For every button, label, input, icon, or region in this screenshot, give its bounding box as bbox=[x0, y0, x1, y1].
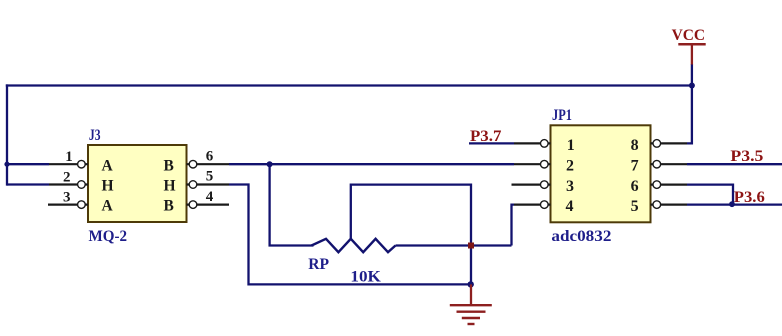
svg-text:B: B bbox=[164, 198, 174, 215]
svg-text:P3.6: P3.6 bbox=[734, 189, 765, 206]
wire VCC net left vertical bbox=[6, 84, 8, 185]
svg-text:5: 5 bbox=[631, 198, 639, 215]
svg-text:P3.5: P3.5 bbox=[730, 148, 763, 165]
pin JP1.2 circle bbox=[541, 160, 549, 168]
svg-text:1: 1 bbox=[567, 137, 575, 154]
pin J3.6 lead bbox=[187, 163, 230, 165]
svg-text:5: 5 bbox=[206, 169, 214, 185]
connector JP1 body bbox=[551, 125, 651, 222]
connector J3 body bbox=[88, 145, 187, 222]
wire JP1.7 to right edge bbox=[687, 163, 782, 165]
svg-text:2: 2 bbox=[63, 169, 71, 185]
ground bar 4 bbox=[468, 323, 475, 325]
wire J3.5 down and across bottom bbox=[229, 185, 471, 285]
pin JP1.3 lead (no connect stub) bbox=[512, 184, 551, 186]
svg-text:8: 8 bbox=[631, 137, 639, 154]
svg-text:B: B bbox=[164, 157, 174, 174]
pin J3.3 circle bbox=[78, 201, 86, 209]
pin JP1.3 circle bbox=[541, 181, 549, 189]
pin J3.4 lead bbox=[187, 204, 230, 206]
svg-text:6: 6 bbox=[206, 148, 214, 164]
svg-text:1: 1 bbox=[65, 149, 73, 165]
node junction on pin6 wire bbox=[267, 161, 273, 167]
pin JP1.5 circle bbox=[653, 201, 661, 209]
wire JP1.8 to VCC bbox=[687, 64, 692, 143]
svg-text:RP: RP bbox=[308, 256, 329, 273]
pin JP1.7 circle bbox=[653, 160, 661, 168]
ground bar 2 bbox=[457, 311, 486, 313]
pin JP1.8 lead bbox=[651, 142, 688, 144]
node junction at left vertical / pin1 wire bbox=[4, 162, 9, 167]
wire JP1.4 vertical bbox=[512, 205, 515, 246]
svg-text:A: A bbox=[102, 198, 114, 215]
node junction pin6/pin5 bbox=[729, 201, 735, 207]
svg-text:JP1: JP1 bbox=[552, 107, 572, 124]
svg-text:H: H bbox=[164, 177, 176, 194]
pin J3.3 lead bbox=[48, 204, 88, 206]
wire RP right terminal bbox=[396, 244, 512, 246]
pin J3.1 lead bbox=[49, 163, 88, 165]
pin J3.1 circle bbox=[78, 160, 86, 168]
wire to J3 pin 1 bbox=[7, 163, 49, 165]
svg-text:adc0832: adc0832 bbox=[551, 228, 611, 245]
svg-text:VCC: VCC bbox=[672, 27, 706, 44]
pin JP1.5 lead bbox=[651, 204, 688, 206]
node junction wiper/right terminal (red) bbox=[468, 243, 474, 249]
pin JP1.4 lead bbox=[514, 204, 551, 206]
svg-text:7: 7 bbox=[631, 158, 639, 175]
pin JP1.4 circle bbox=[541, 201, 549, 209]
pin JP1.2 lead bbox=[514, 163, 551, 165]
ground stem bbox=[470, 284, 472, 305]
wire junction down to RP left bbox=[270, 164, 314, 245]
svg-text:3: 3 bbox=[566, 178, 574, 195]
node junction bottom wire / ground bbox=[468, 281, 474, 287]
pin J3.5 circle bbox=[189, 181, 197, 189]
pin J3.5 lead bbox=[187, 183, 230, 185]
pin J3.2 circle bbox=[78, 181, 86, 189]
svg-text:H: H bbox=[102, 177, 114, 194]
pin JP1.1 lead bbox=[514, 142, 551, 144]
pin JP1.6 lead bbox=[651, 184, 688, 186]
svg-text:A: A bbox=[102, 157, 114, 174]
wire to J3 pin 2 bbox=[7, 183, 49, 185]
wire JP1.5 to right edge bbox=[687, 203, 782, 205]
pin JP1.7 lead bbox=[651, 163, 688, 165]
pin JP1.6 circle bbox=[653, 181, 661, 189]
pin J3.6 circle bbox=[189, 160, 197, 168]
pin JP1.1 circle bbox=[541, 140, 549, 148]
svg-text:J3: J3 bbox=[89, 127, 101, 144]
node junction VCC vertical / top wire bbox=[689, 83, 695, 89]
resistor RP zigzag bbox=[312, 239, 396, 252]
wire RP wiper loop bbox=[351, 185, 471, 285]
svg-text:4: 4 bbox=[206, 189, 214, 205]
pin JP1.8 circle bbox=[653, 140, 661, 148]
svg-text:2: 2 bbox=[566, 158, 574, 175]
ground bar 3 bbox=[462, 317, 480, 319]
ground bar 1 bbox=[450, 304, 492, 306]
svg-text:3: 3 bbox=[63, 189, 71, 205]
pin J3.4 circle bbox=[189, 201, 197, 209]
pin J3.2 lead bbox=[49, 183, 88, 185]
svg-text:10K: 10K bbox=[350, 269, 381, 286]
power VCC bar bbox=[678, 43, 705, 46]
wire J3.6 to JP1.2 bbox=[229, 163, 514, 165]
wire VCC net top horizontal bbox=[6, 84, 693, 86]
svg-text:P3.7: P3.7 bbox=[470, 128, 501, 145]
power VCC stem bbox=[691, 43, 693, 64]
svg-text:6: 6 bbox=[631, 178, 639, 195]
svg-text:4: 4 bbox=[566, 198, 574, 215]
wire P3.7 stub to JP1.1 bbox=[469, 142, 514, 144]
wire JP1.6 down to pin5 wire bbox=[687, 185, 733, 205]
svg-text:MQ-2: MQ-2 bbox=[89, 228, 128, 245]
